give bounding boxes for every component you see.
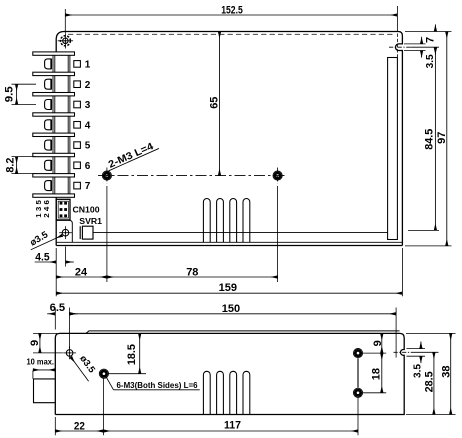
svg-text:24: 24	[75, 266, 88, 278]
bottom view vent slots	[203, 371, 210, 414]
dimension 6.5	[54, 308, 56, 330]
svg-text:152.5: 152.5	[221, 4, 243, 16]
dimension 9.5	[12, 83, 37, 85]
svg-text:3: 3	[34, 207, 43, 211]
svg-text:1: 1	[85, 60, 91, 71]
top view case outline	[56, 32, 402, 246]
case bottom edge lines	[56, 245, 402, 247]
dimension 3.5 top right	[404, 43, 426, 45]
svg-text:78: 78	[186, 266, 198, 278]
centerline between right screws	[357, 358, 359, 388]
svg-text:2: 2	[42, 213, 51, 217]
mounting hole o3.5 top view	[62, 229, 69, 236]
svg-text:SVR1: SVR1	[79, 216, 102, 226]
label 6-M3(Both Sides) L=6	[106, 377, 113, 390]
svg-text:117: 117	[224, 419, 241, 431]
svg-text:6: 6	[85, 161, 91, 172]
svg-text:159: 159	[219, 282, 237, 294]
SVR1 potentiometer	[82, 226, 93, 239]
label o3.5 bottom view	[71, 357, 89, 381]
svg-text:97: 97	[436, 132, 448, 144]
right side slot rectangle	[388, 58, 398, 240]
terminal screws	[45, 59, 52, 69]
dimension 65	[219, 32, 221, 176]
terminal block body verticals	[52, 53, 54, 197]
svg-text:CN100: CN100	[73, 204, 100, 214]
dimension 7	[405, 31, 452, 33]
2-M3 centerline	[98, 175, 287, 177]
label 2-M3 L=4	[105, 139, 160, 171]
svg-text:84.5: 84.5	[423, 129, 435, 150]
dimension 22	[54, 417, 56, 435]
terminal pin squares	[74, 61, 81, 68]
svg-text:65: 65	[208, 97, 220, 109]
svg-text:5: 5	[85, 141, 91, 152]
2-M3 screws	[102, 171, 111, 180]
dimension 3.5 bottom right	[407, 348, 426, 350]
svg-text:2: 2	[85, 80, 91, 91]
dimension 18.5	[108, 373, 146, 375]
svg-text:3.5: 3.5	[424, 54, 436, 68]
CN100 pin numbers 642 / 531	[42, 200, 51, 204]
svg-text:3.5: 3.5	[412, 364, 424, 378]
dimension 4.5	[65, 247, 67, 267]
svg-text:18.5: 18.5	[126, 344, 138, 365]
svg-text:4.5: 4.5	[35, 252, 49, 264]
svg-text:7: 7	[425, 37, 437, 43]
dimension 152.5	[64, 9, 66, 33]
svg-text:8.2: 8.2	[5, 158, 17, 173]
svg-text:28.5: 28.5	[423, 371, 435, 392]
inner lip line	[93, 232, 387, 234]
mounting hole o3.5 bottom view	[66, 350, 73, 357]
dimension 18	[363, 392, 386, 394]
cover screw top-left	[60, 36, 70, 46]
dimension 150	[395, 308, 397, 358]
CN100 connector	[56, 199, 70, 220]
dimension 84.5	[408, 229, 439, 231]
input terminal protrusion	[34, 379, 56, 403]
cover lip line	[86, 331, 400, 334]
svg-text:18: 18	[371, 368, 383, 380]
dimension 159	[55, 248, 57, 296]
cover hidden dashed line	[68, 33, 394, 35]
svg-text:4: 4	[85, 120, 91, 131]
svg-text:22: 22	[74, 420, 85, 432]
svg-text:7: 7	[85, 181, 91, 192]
hook centerlines	[389, 46, 411, 48]
6-M3 screws right pair	[353, 349, 362, 358]
svg-text:3: 3	[85, 100, 91, 111]
svg-text:150: 150	[222, 303, 240, 315]
dimension 8.2	[12, 156, 37, 158]
inner bracket around mounting hole	[56, 220, 72, 242]
svg-text:6.5: 6.5	[50, 302, 66, 314]
svg-text:9.5: 9.5	[3, 86, 15, 102]
dimension 9 left	[33, 332, 57, 334]
dimension 117	[357, 397, 359, 435]
dimension 24	[106, 186, 108, 282]
terminal barrier bars	[33, 52, 75, 55]
svg-text:9: 9	[372, 340, 384, 346]
label o3.5 top view	[31, 235, 63, 250]
top view vent slots	[203, 198, 210, 242]
svg-text:6-M3(Both Sides) L=6: 6-M3(Both Sides) L=6	[117, 380, 198, 390]
dimension 28.5	[414, 351, 439, 353]
dimension 78	[277, 186, 279, 282]
dimension 38	[406, 332, 456, 334]
svg-text:10 max.: 10 max.	[27, 356, 55, 366]
bottom view case outline	[55, 333, 404, 414]
svg-text:9: 9	[29, 340, 41, 346]
svg-text:38: 38	[440, 366, 452, 378]
6-M3 screw left	[99, 369, 108, 378]
notch centerline	[394, 351, 415, 353]
svg-text:6: 6	[42, 200, 51, 204]
dimension 97	[405, 245, 452, 247]
dimension 9 right	[363, 352, 386, 354]
